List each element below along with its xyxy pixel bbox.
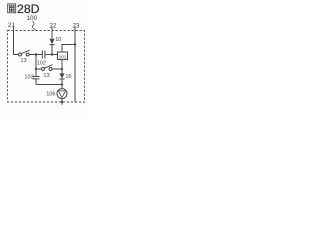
component box 101 <box>58 52 68 60</box>
leader squiggle from 100 to box <box>32 21 35 30</box>
svg-text:28D: 28D <box>17 2 40 16</box>
svg-text:13: 13 <box>43 73 49 79</box>
terminal 23 lead / right rail wire <box>74 27 76 103</box>
title glyph 圖 (figure) <box>8 4 16 13</box>
terminal 21 lead wire <box>14 27 19 55</box>
node dot row1/col36 <box>35 53 37 55</box>
wire cap to box 101 <box>45 54 57 56</box>
capacitor 102 <box>42 50 45 58</box>
dashed enclosure box 100 <box>8 31 85 103</box>
wire row2 left <box>36 68 41 70</box>
node dot bottom border <box>61 101 63 103</box>
svg-text:101: 101 <box>59 54 67 59</box>
svg-text:10: 10 <box>55 37 61 43</box>
node dot col36 row2 <box>35 68 37 70</box>
wire row3 to node <box>36 84 62 86</box>
svg-text:106: 106 <box>46 91 55 97</box>
svg-text:21: 21 <box>8 22 15 29</box>
diode 16 <box>59 69 64 85</box>
node dot row1/diode10 <box>51 53 53 55</box>
switch 13 (upper) <box>19 50 30 56</box>
diode 10 <box>49 39 54 55</box>
svg-text:13: 13 <box>20 58 26 64</box>
wire row2 right <box>52 68 62 70</box>
capacitor 103 <box>33 69 40 85</box>
svg-text:23: 23 <box>73 23 80 30</box>
wire box101 bottom down <box>61 60 63 69</box>
node dot row2 <box>61 68 63 70</box>
svg-text:102: 102 <box>37 61 46 67</box>
svg-text:100: 100 <box>27 15 38 22</box>
wire col36 down <box>35 55 37 70</box>
wire box101 top to right rail <box>62 45 75 53</box>
wire row1 switch to cap <box>29 54 42 56</box>
node dot right rail top <box>74 43 76 45</box>
alarm indicator 106 (circle with triangle) <box>57 85 67 105</box>
svg-text:22: 22 <box>49 23 56 30</box>
terminal 22 lead wire <box>51 27 53 39</box>
switch 13 (lower) <box>42 65 53 71</box>
svg-text:16: 16 <box>65 74 71 80</box>
svg-text:103: 103 <box>24 74 33 80</box>
node dot row3 <box>61 83 63 85</box>
